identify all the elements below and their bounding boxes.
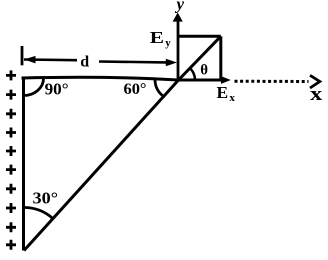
hypotenuse diagonal from bottom vertex through origin to E corner [24,36,221,250]
d right arrowhead [166,59,177,66]
svg-text:θ: θ [200,62,208,78]
d left arrowhead [24,56,36,64]
svg-text:60°: 60° [124,81,147,98]
svg-text:E: E [150,28,164,47]
svg-text:y: y [165,37,171,49]
svg-text:90°: 90° [45,79,69,98]
svg-text:d: d [80,53,89,70]
E rectangle right edge [219,36,222,80]
30 degree arc [24,207,53,218]
d left tick [21,46,24,65]
y axis arrowhead [173,13,183,22]
60 degree arc [155,80,163,96]
horizontal line from plate to E_x arrow [22,77,223,80]
dotted x axis [235,80,309,83]
90 degree arc [24,79,44,96]
charged sheet left vertical line [22,78,25,251]
E_x arrowhead [221,76,231,84]
svg-text:x: x [229,92,235,104]
svg-text:E: E [217,83,229,102]
plus charge column [6,70,16,249]
svg-text:30°: 30° [33,189,59,208]
theta arc [190,68,195,80]
y axis line [177,19,180,80]
svg-text:y: y [175,0,185,14]
svg-text:x: x [310,84,323,105]
d dimension line [24,58,77,61]
E rectangle top edge [178,35,221,38]
x axis chevron arrowhead [310,75,320,88]
